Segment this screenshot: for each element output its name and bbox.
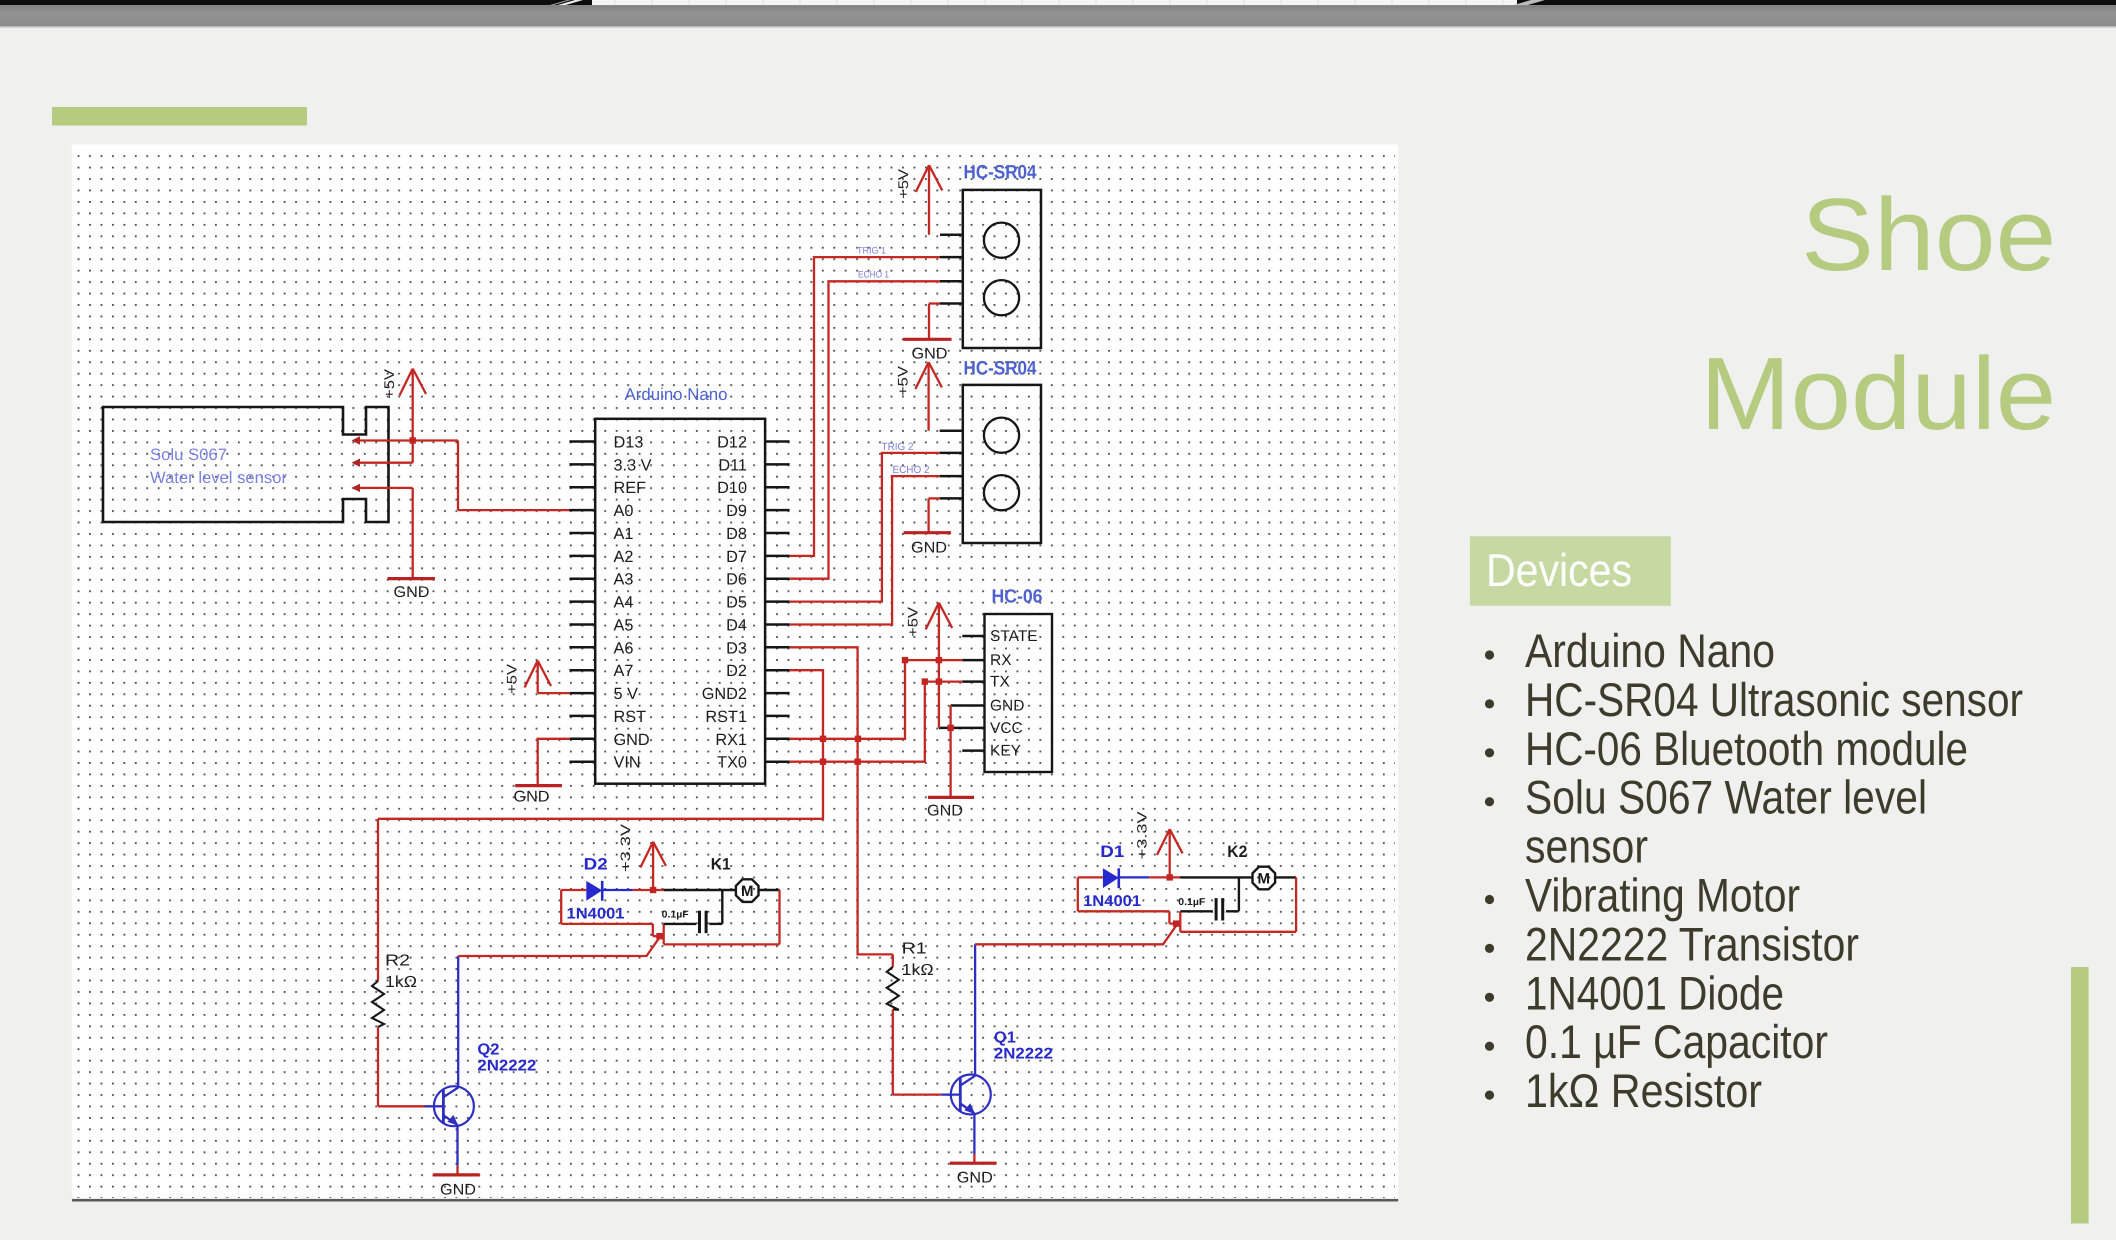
- svg-text:Vibrating Motor: Vibrating Motor: [1525, 870, 1800, 923]
- svg-text:RST1: RST1: [705, 708, 747, 726]
- svg-text:R1: R1: [902, 941, 927, 958]
- svg-text:TX: TX: [990, 674, 1010, 691]
- svg-text:+5V: +5V: [895, 168, 911, 199]
- svg-text:0.1 µF Capacitor: 0.1 µF Capacitor: [1525, 1016, 1828, 1069]
- svg-text:GND: GND: [927, 803, 963, 820]
- svg-text:HC-06: HC-06: [992, 587, 1043, 608]
- svg-text:+5V: +5V: [381, 368, 397, 399]
- svg-text:RST: RST: [614, 708, 647, 726]
- svg-text:1kΩ: 1kΩ: [385, 974, 417, 991]
- svg-text:GND: GND: [440, 1182, 476, 1199]
- svg-text:HC-SR04 Ultrasonic sensor: HC-SR04 Ultrasonic sensor: [1525, 674, 2023, 727]
- svg-text:2N2222 Transistor: 2N2222 Transistor: [1525, 918, 1859, 971]
- svg-text:KEY: KEY: [990, 743, 1021, 760]
- svg-text:Arduino Nano: Arduino Nano: [625, 385, 728, 404]
- svg-text:M: M: [1258, 871, 1271, 888]
- svg-text:GND: GND: [990, 698, 1024, 715]
- svg-text:Arduino Nano: Arduino Nano: [1525, 625, 1775, 678]
- svg-text:Solu S067: Solu S067: [150, 446, 227, 464]
- svg-text:HC-SR04: HC-SR04: [964, 162, 1037, 184]
- svg-text:D8: D8: [726, 525, 747, 543]
- svg-text:VCC: VCC: [990, 720, 1023, 737]
- svg-text:D2: D2: [584, 856, 608, 874]
- svg-text:R2: R2: [385, 953, 410, 970]
- svg-text:K2: K2: [1227, 843, 1247, 861]
- svg-text:1N4001: 1N4001: [1083, 893, 1141, 910]
- svg-text:A1: A1: [614, 525, 634, 543]
- svg-text:2N2222: 2N2222: [994, 1046, 1053, 1063]
- svg-text:Module: Module: [1700, 336, 2056, 451]
- svg-text:TRIG 1: TRIG 1: [857, 246, 886, 257]
- svg-text:A5: A5: [614, 617, 634, 635]
- svg-text:sensor: sensor: [1525, 821, 1648, 874]
- svg-text:ECHO 1: ECHO 1: [858, 270, 889, 281]
- svg-text:Water level sensor: Water level sensor: [150, 469, 287, 487]
- svg-text:Shoe: Shoe: [1801, 177, 2056, 292]
- svg-text:D3: D3: [726, 639, 747, 657]
- svg-text:1N4001 Diode: 1N4001 Diode: [1525, 967, 1784, 1020]
- svg-text:D2: D2: [726, 662, 747, 680]
- svg-text:A4: A4: [614, 594, 634, 612]
- svg-text:D11: D11: [718, 456, 747, 474]
- svg-text:HC-06 Bluetooth module: HC-06 Bluetooth module: [1525, 723, 1968, 776]
- svg-text:HC-SR04: HC-SR04: [964, 358, 1037, 380]
- svg-text:Devices: Devices: [1486, 544, 1632, 596]
- svg-text:Solu S067 Water level: Solu S067 Water level: [1525, 772, 1927, 825]
- svg-text:GND2: GND2: [702, 685, 747, 703]
- svg-text:D6: D6: [726, 571, 747, 589]
- svg-text:GND: GND: [514, 789, 550, 806]
- svg-text:A0: A0: [614, 502, 634, 520]
- svg-text:M: M: [741, 883, 754, 900]
- svg-text:+3.3V: +3.3V: [1135, 811, 1150, 859]
- svg-text:1kΩ: 1kΩ: [902, 962, 934, 979]
- svg-text:D12: D12: [717, 434, 747, 452]
- svg-text:ECHO 2: ECHO 2: [893, 464, 930, 476]
- svg-text:Q2: Q2: [477, 1042, 499, 1059]
- svg-text:GND: GND: [912, 346, 948, 363]
- svg-text:+5V: +5V: [895, 365, 911, 396]
- svg-text:D1: D1: [1100, 843, 1124, 861]
- svg-text:A7: A7: [614, 662, 634, 680]
- svg-text:RX: RX: [990, 652, 1012, 669]
- svg-text:TRIG 2: TRIG 2: [882, 441, 914, 453]
- svg-text:D5: D5: [726, 594, 747, 612]
- svg-text:5 V: 5 V: [614, 685, 639, 703]
- svg-text:1kΩ Resistor: 1kΩ Resistor: [1525, 1065, 1762, 1118]
- svg-text:GND: GND: [614, 731, 650, 749]
- svg-text:A3: A3: [614, 571, 634, 589]
- svg-text:1N4001: 1N4001: [567, 906, 625, 923]
- svg-text:Q1: Q1: [994, 1030, 1016, 1047]
- svg-text:0.1µF: 0.1µF: [662, 910, 689, 921]
- svg-text:GND: GND: [394, 584, 430, 601]
- svg-text:STATE: STATE: [990, 628, 1038, 645]
- svg-text:RX1: RX1: [715, 731, 747, 749]
- svg-text:GND: GND: [911, 540, 947, 557]
- svg-text:2N2222: 2N2222: [477, 1058, 536, 1075]
- svg-text:A2: A2: [614, 548, 634, 566]
- svg-text:D13: D13: [614, 434, 644, 452]
- svg-text:TX0: TX0: [717, 754, 747, 772]
- svg-text:GND: GND: [957, 1170, 993, 1187]
- svg-text:0.1µF: 0.1µF: [1178, 897, 1205, 908]
- svg-text:A6: A6: [614, 639, 634, 657]
- svg-text:+3.3V: +3.3V: [618, 824, 633, 872]
- svg-text:D4: D4: [726, 617, 747, 635]
- svg-text:3.3 V: 3.3 V: [614, 456, 652, 474]
- svg-text:D10: D10: [717, 479, 747, 497]
- svg-text:+5V: +5V: [905, 606, 921, 637]
- svg-text:D9: D9: [726, 502, 747, 520]
- svg-text:+5V: +5V: [504, 663, 520, 694]
- svg-text:K1: K1: [711, 856, 731, 874]
- svg-text:REF: REF: [614, 479, 647, 497]
- svg-text:D7: D7: [726, 548, 747, 566]
- svg-text:VIN: VIN: [614, 754, 641, 772]
